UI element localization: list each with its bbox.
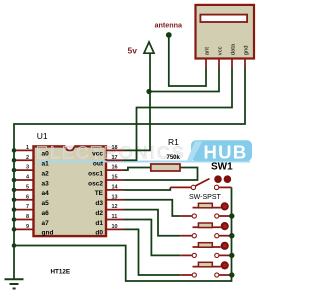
U1 left pin 4	[14, 179, 33, 181]
svg-text:12: 12	[112, 204, 118, 210]
U1 right pin 14	[107, 189, 124, 191]
ground symbol	[5, 279, 24, 288]
wire ground return from bus	[14, 187, 232, 281]
U1 left pin 6	[14, 199, 33, 201]
svg-text:osc1: osc1	[88, 170, 103, 177]
wire d0 to SW5	[124, 229, 181, 275]
power symbol 5v arrow	[144, 42, 154, 53]
wire 5v rail to vcc pin 18	[124, 54, 151, 151]
module inner white rect	[200, 15, 247, 22]
junction a6 bus	[12, 207, 17, 212]
junction a5 bus	[12, 198, 17, 203]
switch SW4	[180, 242, 231, 258]
junction a7 bus	[12, 217, 17, 222]
svg-text:10: 10	[112, 224, 118, 230]
svg-text:7: 7	[26, 204, 29, 210]
svg-text:HUB: HUB	[204, 142, 248, 163]
U1 notch	[65, 145, 74, 148]
module pin vcc	[218, 59, 220, 68]
svg-text:SW-SPST: SW-SPST	[189, 194, 221, 201]
junction a0 bus	[12, 148, 17, 153]
junction a2 bus	[12, 168, 17, 173]
U1 left pin 2	[14, 159, 33, 161]
svg-text:d0: d0	[95, 230, 103, 237]
svg-text:d1: d1	[95, 220, 103, 227]
wire TE to SW1	[124, 187, 171, 190]
U1 right pin 10	[107, 228, 124, 230]
svg-text:data: data	[230, 43, 236, 55]
junction a3 bus	[12, 178, 17, 183]
junction gnd pin bus	[12, 227, 17, 232]
U1 left pin 8	[14, 219, 33, 221]
U1 right pin 18	[107, 149, 124, 151]
RF transmitter module body	[196, 5, 255, 59]
svg-text:osc2: osc2	[88, 180, 103, 187]
svg-text:vcc: vcc	[217, 46, 223, 55]
svg-text:13: 13	[112, 194, 118, 200]
svg-text:5v: 5v	[128, 46, 138, 56]
wire module gnd to ground bus	[14, 68, 245, 280]
U1 right pin 11	[107, 219, 124, 221]
IC U1 body	[34, 146, 107, 236]
svg-text:18: 18	[112, 145, 118, 151]
U1 right pin 17	[107, 159, 124, 161]
junction a4 bus	[12, 188, 17, 193]
svg-text:U1: U1	[37, 131, 48, 141]
junction a1 bus	[12, 158, 17, 163]
switch SW5	[180, 261, 231, 277]
U1 left pin 9	[14, 228, 33, 230]
svg-text:2: 2	[26, 155, 29, 161]
U1 left pin 5	[14, 189, 33, 191]
watermark swoosh underline	[38, 161, 250, 163]
junction SW3 bus	[229, 233, 234, 238]
svg-text:a0: a0	[42, 151, 50, 158]
wire osc1 to R1 left	[124, 168, 151, 171]
svg-text:9: 9	[26, 224, 29, 230]
U1 right pin 16	[107, 169, 124, 171]
svg-text:out: out	[93, 161, 104, 168]
wire d3 to SW2	[124, 200, 181, 216]
module pin data	[231, 59, 233, 68]
wire 5v branch to module vcc	[150, 68, 219, 92]
svg-text:11: 11	[112, 214, 118, 220]
svg-text:8: 8	[26, 214, 29, 220]
U1 left pin 7	[14, 209, 33, 211]
svg-text:antenna: antenna	[155, 21, 184, 30]
U1 right pin 13	[107, 199, 124, 201]
svg-text:6: 6	[26, 194, 29, 200]
svg-text:d3: d3	[95, 200, 103, 207]
svg-text:14: 14	[112, 184, 119, 190]
junction SW5 bus	[229, 272, 234, 277]
U1 left pin 1	[14, 149, 33, 151]
svg-text:a6: a6	[42, 210, 50, 217]
svg-text:1: 1	[26, 145, 29, 151]
wire module data to out pin 17	[124, 68, 233, 161]
svg-text:5: 5	[26, 184, 29, 190]
wire R1 right to osc2	[124, 168, 198, 181]
svg-text:17: 17	[112, 155, 118, 161]
junction 5v branch	[146, 89, 151, 94]
wire d1 to SW4	[124, 220, 181, 256]
svg-text:SW1: SW1	[211, 161, 233, 172]
junction SW2 bus	[229, 213, 234, 218]
switch SW2	[180, 202, 231, 218]
svg-text:3: 3	[26, 165, 29, 171]
svg-text:a1: a1	[42, 161, 50, 168]
U1 left pin 3	[14, 169, 33, 171]
svg-text:750k: 750k	[167, 155, 181, 161]
U1 right pin 15	[107, 179, 124, 181]
svg-text:ant: ant	[204, 47, 210, 55]
svg-text:HT12E: HT12E	[51, 269, 71, 276]
svg-text:15: 15	[112, 175, 118, 181]
U1 right pin 12	[107, 209, 124, 211]
switch SW3	[180, 222, 231, 238]
svg-text:a3: a3	[42, 180, 50, 187]
svg-text:vcc: vcc	[92, 151, 103, 158]
module pin gnd	[244, 59, 246, 68]
watermark HUB blue box	[191, 140, 252, 161]
svg-text:R1: R1	[168, 137, 179, 147]
svg-text:gnd: gnd	[243, 46, 249, 56]
switch SW1	[170, 175, 231, 189]
junction ground branch	[12, 243, 17, 248]
svg-text:a7: a7	[42, 220, 50, 227]
module pin ant	[205, 59, 207, 68]
junction SW4 bus	[229, 253, 234, 258]
svg-text:a2: a2	[42, 170, 50, 177]
svg-text:gnd: gnd	[42, 230, 54, 237]
svg-text:a5: a5	[42, 200, 50, 207]
antenna terminal dot	[166, 32, 172, 38]
svg-text:TE: TE	[95, 190, 104, 197]
wire d2 to SW3	[124, 210, 181, 236]
svg-text:16: 16	[112, 165, 118, 171]
svg-text:a4: a4	[42, 190, 50, 197]
resistor R1 body	[151, 164, 180, 171]
svg-text:d2: d2	[95, 210, 103, 217]
watermark lightning slash	[187, 142, 203, 162]
wire antenna to ant pin	[169, 35, 206, 86]
